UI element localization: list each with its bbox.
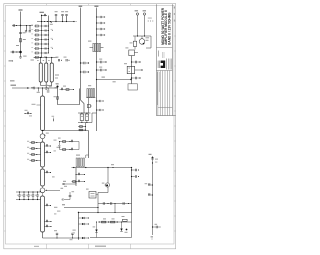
capacitor C48 bottom — [70, 233, 74, 240]
title block divider under text — [156, 47, 172, 49]
capacitor C3 on input wire — [19, 32, 25, 33]
thermal sensor cluster — [149, 154, 159, 164]
frame index ticks bottom — [47, 244, 131, 249]
wire cluster drop — [85, 123, 87, 132]
wire cap bank top rail — [34, 57, 58, 59]
wire feedback loop — [58, 87, 80, 105]
capacitor C41 bias — [111, 202, 112, 204]
capacitor C31 ladder — [35, 191, 39, 200]
wire q6 elbow — [98, 193, 108, 213]
wire rows to rail — [78, 142, 80, 150]
wire input arrow — [12, 87, 30, 89]
ground symbol cap bank — [45, 88, 48, 89]
resistor R16 — [78, 126, 86, 128]
wire protection left rail bottom — [78, 238, 80, 240]
node input junction — [20, 25, 21, 26]
wire stub y190 — [45, 188, 63, 191]
resistor R19 tall box — [41, 96, 45, 131]
resistor R34 — [98, 221, 132, 223]
title table line 3 — [162, 71, 164, 116]
wire bus left end mark — [50, 22, 53, 25]
wire cluster top — [78, 112, 91, 113]
capacitor C11 decoupling — [96, 16, 105, 18]
net flag V+ top — [94, 6, 98, 9]
wire input node link — [42, 87, 58, 88]
wire rail2 vertical — [80, 9, 82, 101]
transistor Q4 — [139, 36, 148, 44]
wire cluster mid — [78, 121, 92, 124]
transistor Q6 — [102, 183, 110, 187]
capacitor C23 stub — [44, 144, 51, 146]
terminal pin P2 — [143, 10, 146, 19]
resistor R22 tall box — [41, 196, 45, 232]
node bus junctions — [41, 21, 51, 22]
title table line 4 — [164, 71, 166, 116]
wire q6 rail — [107, 167, 108, 193]
capacitor C12 decoupling — [96, 22, 105, 24]
title block small field lines — [162, 52, 164, 58]
node bus end — [73, 21, 76, 22]
label cap bank left — [31, 60, 34, 61]
resistor R23 side — [27, 141, 41, 144]
wire right rail bottom — [131, 213, 133, 238]
frame index ticks left — [4, 21, 6, 231]
component on loop left — [54, 96, 59, 99]
wire bias drop — [114, 204, 116, 213]
wire mid bus — [88, 131, 90, 159]
diode D2 — [79, 223, 90, 225]
title table line 6 — [169, 71, 171, 116]
resistor R1 stub — [25, 25, 27, 32]
wire choke top link — [86, 155, 89, 158]
label cap bank bottom — [31, 86, 58, 88]
resistor R4 ladder rung — [31, 29, 52, 32]
wire ladder rail bottom — [16, 199, 41, 201]
opto box U2 — [86, 189, 96, 198]
capacitor C47 bottom — [54, 230, 58, 238]
wire protection bottom rail — [90, 234, 132, 238]
label near loop bottom — [52, 116, 55, 122]
resistor R17 — [78, 129, 86, 131]
box component U1 — [125, 47, 138, 55]
capacitor C19 polarized — [80, 113, 83, 121]
terminal pin P1 — [135, 10, 139, 19]
wire bus elbow to choke — [87, 158, 89, 168]
capacitor C21 input — [31, 87, 43, 90]
node solder junction — [19, 51, 22, 54]
company logo — [158, 61, 165, 69]
title text line 3 — [167, 12, 171, 44]
wire supply rail A — [41, 15, 43, 58]
resistor R3 ladder rung — [31, 25, 49, 28]
page frame inner border — [6, 5, 175, 244]
transistor Q3 — [40, 186, 45, 196]
frame footer text left — [34, 246, 39, 247]
resistor R21 tall box — [41, 167, 45, 186]
electrolytic capacitor C10 — [50, 57, 53, 82]
junction V+ to rail — [130, 79, 131, 80]
diode D3 — [79, 237, 90, 239]
net label input arrow text — [11, 85, 17, 86]
wire ladder rail top — [16, 191, 41, 193]
wire output line — [90, 164, 132, 168]
label right of chain — [54, 140, 61, 152]
value label — [16, 45, 19, 46]
resistor R32 row — [72, 180, 86, 183]
label out left arrow — [62, 183, 67, 187]
capacitor C36 stub — [131, 169, 139, 171]
wire input vertical — [20, 12, 22, 58]
capacitor C28 ladder — [21, 191, 25, 200]
resistor R2 series — [20, 39, 26, 42]
diode D5 vertical — [120, 226, 127, 233]
title block left border — [155, 4, 157, 115]
resistor R36 body — [103, 218, 118, 223]
label cap bank right — [55, 75, 59, 79]
capacitor C49 sense bottom — [152, 224, 161, 228]
capacitor C22 left pair — [24, 110, 32, 117]
resistor R5 ladder rung — [31, 34, 49, 37]
resistor R31 row — [60, 148, 80, 151]
capacitor C34 stub — [131, 61, 141, 64]
wire opto link — [96, 194, 98, 196]
net label left margin A — [9, 60, 14, 61]
ladder bottom row marks — [34, 56, 47, 58]
loop corner label — [146, 37, 150, 38]
electrolytic capacitor C8 — [39, 57, 42, 82]
capacitor C18 — [80, 71, 89, 73]
page frame outer border — [4, 4, 176, 249]
capacitor C13 decoupling — [96, 28, 105, 30]
wire chain top — [42, 88, 44, 96]
capacitor C44 pair — [64, 57, 70, 62]
wire out left — [62, 181, 76, 184]
frame index ticks right — [174, 21, 176, 231]
capacitor C52 rail stub — [96, 109, 104, 111]
resistor R6 ladder rung — [31, 38, 52, 41]
wire supply rail B — [48, 16, 50, 54]
wire out top link — [62, 204, 99, 208]
wire to C4 — [11, 51, 21, 53]
frame index letters right — [174, 7, 175, 22]
capacitor C2 stub — [29, 25, 31, 32]
resistor R37 body — [122, 216, 128, 221]
label protection left — [73, 230, 76, 234]
wire rail top link — [41, 14, 47, 16]
wire protection left rail — [78, 213, 80, 239]
resistor R8 ladder rung — [31, 47, 52, 50]
resistor R18 to ground — [37, 88, 40, 93]
capacitor C29 ladder — [26, 191, 30, 200]
svg-text:BAND 8 / 23V 5OHMS: BAND 8 / 23V 5OHMS — [167, 12, 171, 44]
title block field text — [157, 51, 160, 57]
wire V+ top horizontal — [96, 79, 131, 80]
wire bus horizontal top — [37, 21, 74, 23]
resistor R28 feedback — [58, 88, 80, 90]
wire row link — [58, 138, 61, 150]
relay box K1 — [128, 84, 137, 90]
capacitor C32 row — [75, 173, 85, 175]
capacitor C15 decoupling — [96, 59, 107, 64]
capacitor C4 — [12, 51, 17, 53]
resistor R30 row — [59, 140, 79, 143]
net label VIN — [19, 9, 23, 10]
title table divider — [158, 107, 173, 109]
wire chain bottom — [43, 232, 80, 239]
title table line 1 — [157, 71, 159, 116]
capacitor C6 — [61, 11, 64, 22]
capacitor C42 bias — [123, 202, 124, 204]
resistor R7 ladder rung — [31, 43, 49, 46]
net flag rail2 top — [79, 6, 83, 9]
title block divider above table — [156, 70, 172, 72]
ground symbol input — [19, 56, 27, 59]
capacitor C7 — [65, 11, 68, 22]
capacitor C17 — [80, 62, 89, 64]
net label left margin B — [10, 80, 15, 81]
wire right rail upper — [131, 56, 133, 84]
capacitor C50 small box — [87, 104, 92, 107]
capacitor C37 stub — [131, 175, 139, 177]
wire pins down — [138, 19, 145, 36]
capacitor C40 bias — [103, 202, 104, 204]
resistor R9 ladder rung — [31, 52, 49, 55]
wire choke stub vertical — [75, 168, 77, 187]
capacitor C1 — [13, 24, 17, 26]
logo caption text — [166, 59, 172, 70]
wire protection top — [78, 212, 132, 213]
capacitor C38 sense — [145, 183, 153, 185]
resistor R35 body — [99, 221, 109, 223]
pin number marks — [148, 18, 154, 22]
capacitor C46 stub — [44, 225, 51, 227]
frame index ticks top — [47, 4, 131, 6]
relay K2 coil bars — [86, 85, 95, 97]
wire protection inner — [96, 221, 97, 225]
resistor R20 tall box — [41, 142, 45, 167]
title block bottom border — [156, 115, 175, 117]
capacitor C27 ladder — [17, 191, 21, 200]
title text line 2 — [164, 10, 168, 45]
title table row text — [157, 72, 160, 105]
capacitor C51 rail stub — [96, 100, 104, 102]
title table line 2 — [159, 71, 161, 116]
wire cluster right rail — [92, 113, 97, 123]
resistor R29 feedback — [60, 86, 75, 91]
transistor Q2 — [40, 131, 49, 143]
capacitor C26 stub — [44, 204, 51, 206]
ground symbol C33 — [62, 198, 70, 201]
wire sense rail — [152, 163, 154, 235]
label cluster right low — [54, 207, 60, 215]
capacitor C5 — [55, 11, 58, 22]
label above node — [56, 83, 59, 84]
transistor Q5 box — [124, 63, 143, 74]
capacitor C25 stub — [44, 171, 54, 178]
wire rail2 elbow — [81, 100, 85, 113]
capacitor C20 polarized — [85, 113, 88, 121]
wire right rail lower — [131, 168, 133, 214]
frame footer text mid — [95, 246, 106, 247]
title text line 1 — [161, 7, 165, 45]
resistor R25 side — [27, 153, 41, 156]
wire V+ rail — [96, 9, 98, 132]
diode D1 — [79, 217, 90, 219]
capacitor C24 stub — [44, 151, 51, 153]
node feedback junction — [56, 83, 59, 87]
wire long bus y130 — [42, 130, 89, 131]
polarity marks cap bank — [37, 59, 49, 62]
stub left of R19 — [32, 104, 41, 105]
net label rail A — [40, 12, 44, 13]
capacitor C14 decoupling — [96, 34, 105, 36]
wire input horizontal — [12, 25, 33, 27]
wire relay down — [88, 98, 90, 113]
resistor R26 side — [27, 159, 41, 162]
capacitor C39 sense — [148, 193, 153, 195]
capacitor C16 decoupling — [96, 67, 107, 72]
title table line 5 — [166, 71, 168, 116]
wire bias row — [98, 203, 132, 204]
resistor R33 loop — [130, 36, 137, 50]
title block right border — [171, 4, 173, 115]
wire cap bank bottom — [41, 82, 52, 88]
capacitor C43 pair — [56, 57, 63, 62]
diode D4 vertical — [93, 226, 98, 236]
sense rail end mark — [151, 236, 153, 239]
capacitor C30 ladder — [30, 191, 34, 200]
wire choke bottom — [72, 167, 91, 168]
capacitor C35 stub — [131, 77, 141, 80]
net label on wire — [102, 77, 116, 83]
inductor L1 ferrite bars — [88, 41, 104, 52]
capacitor C33 to ground — [69, 191, 74, 199]
resistor R24 side — [27, 147, 41, 150]
stub right of chain top — [45, 85, 49, 93]
inductor L2 ferrite bars — [76, 155, 84, 167]
electrolytic capacitor C9 — [45, 57, 48, 82]
wire protection inner2 — [121, 221, 122, 225]
wire loop top — [133, 35, 151, 48]
capacitor C45 stub — [44, 220, 51, 222]
